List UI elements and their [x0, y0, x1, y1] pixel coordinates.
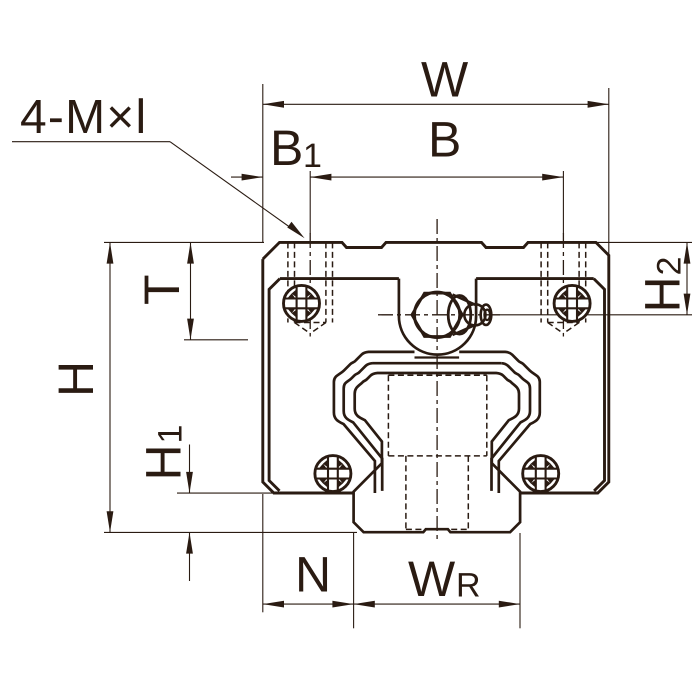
seal lip top edge line — [373, 362, 502, 365]
screw top-left — [284, 285, 320, 321]
center line right mounting hole — [562, 233, 564, 337]
dimension H2 line — [686, 242, 688, 314]
screw bottom-left — [315, 456, 351, 492]
svg-text:H: H — [136, 444, 192, 480]
svg-text:1: 1 — [152, 425, 190, 444]
leader underline — [12, 141, 170, 143]
nipple cone lower line — [453, 324, 477, 335]
svg-text:B: B — [428, 112, 461, 168]
svg-text:H: H — [48, 361, 104, 397]
nipple base circle — [414, 292, 459, 337]
screw top-right — [554, 285, 590, 321]
svg-text:W: W — [421, 52, 469, 108]
arrowhead H1 bottom (outside, pointing up) — [186, 532, 193, 553]
cavity opening contour right half — [459, 352, 540, 493]
svg-text:4-M×l: 4-M×l — [20, 91, 147, 144]
nipple tip outer ellipse — [481, 305, 492, 325]
end plate inner contour right — [594, 279, 605, 491]
arrowhead H2 bottom — [684, 294, 691, 315]
chord line under grease boss — [415, 356, 460, 358]
arrowhead WR left — [354, 601, 375, 608]
extension line H2 top from block corner — [597, 241, 692, 243]
extension line N left below block — [262, 494, 264, 612]
dimension N line — [263, 603, 354, 605]
dimension B line — [310, 176, 563, 178]
block outer contour with chamfers and top notches — [263, 242, 609, 493]
right mounting hole thread (dashed) — [541, 242, 586, 333]
arrowhead T bottom — [187, 319, 194, 340]
dimension H1 tails outside — [189, 445, 191, 494]
nipple collar ellipse — [448, 296, 471, 335]
seal lip contour left — [344, 363, 383, 491]
dimension B1 outside arrow tail — [231, 176, 263, 178]
extension line rail bottom for H and H1 — [104, 531, 357, 533]
rail cross-section profile left half — [354, 373, 437, 532]
cavity opening contour left half — [334, 352, 415, 493]
arrowhead B left — [310, 174, 331, 181]
arrowhead H top — [107, 242, 114, 263]
arrowhead H2 top — [684, 242, 691, 263]
rail bottom relief hidden line right — [451, 528, 468, 530]
extension line top of block to H/T dimension — [104, 241, 264, 243]
arrowhead H bottom — [107, 511, 114, 532]
dimension H line — [109, 242, 111, 532]
screw bottom-right — [523, 456, 559, 492]
nipple cone upper line — [453, 295, 477, 306]
rail cross-section profile right half — [437, 373, 520, 532]
arrowhead H1 top (outside, pointing down) — [186, 472, 193, 493]
svg-text:N: N — [295, 547, 331, 603]
extension line B right / right hole center — [562, 171, 564, 234]
extension line W left / B1 left (block left edge up) — [262, 84, 264, 242]
dimension WR line — [354, 603, 520, 605]
extension line H2 bottom nipple centerline right — [500, 314, 692, 316]
rail bolt counterbore (dashed) — [388, 375, 486, 529]
extension line N right / WR left below rail — [353, 533, 355, 628]
end plate top edge line — [280, 277, 399, 280]
nipple hex flats (behind circle) — [412, 293, 462, 336]
boss outline dome — [399, 279, 476, 355]
arrowhead N right — [332, 601, 353, 608]
dimension W line — [263, 103, 609, 105]
end plate inner contour left — [269, 279, 280, 491]
extension line W right (block right edge up) — [608, 88, 610, 256]
extension line B1 right / left hole center — [309, 171, 311, 234]
arrowhead W right — [588, 101, 609, 108]
svg-text:H: H — [635, 276, 691, 312]
left mounting hole thread (dashed) — [288, 242, 333, 333]
nipple tip inner ellipse — [484, 310, 490, 320]
extension line T bottom tick — [184, 339, 248, 341]
arrowhead B right — [542, 174, 563, 181]
svg-text:2: 2 — [651, 257, 689, 276]
arrowhead W left — [263, 101, 284, 108]
horizontal center line grease nipple — [378, 314, 500, 316]
label H2 rotated — [635, 257, 691, 313]
vertical center line of rail — [436, 219, 438, 541]
extension line WR right below rail — [519, 533, 521, 628]
arrowhead T top — [187, 242, 194, 263]
rail bolt through hole (dashed) — [405, 456, 407, 530]
leader arrowhead — [287, 222, 304, 239]
svg-text:T: T — [134, 274, 190, 305]
center line left mounting hole — [309, 233, 311, 337]
nipple ball head — [464, 304, 485, 325]
dimension T line — [190, 242, 192, 339]
arrowhead WR right — [499, 601, 520, 608]
arrowhead B1 (outside, pointing right) — [242, 174, 263, 181]
leader diagonal to left mounting hole — [170, 142, 298, 233]
svg-text:W: W — [408, 551, 456, 607]
svg-text:1: 1 — [303, 137, 322, 175]
rail bottom relief hidden line left — [406, 528, 423, 530]
svg-text:R: R — [456, 567, 481, 605]
svg-text:B: B — [270, 120, 303, 176]
extension line block bottom for H1 — [177, 492, 272, 494]
label H1 rotated — [136, 425, 192, 481]
seal lip contour right — [492, 363, 531, 491]
arrowhead N left — [263, 601, 284, 608]
